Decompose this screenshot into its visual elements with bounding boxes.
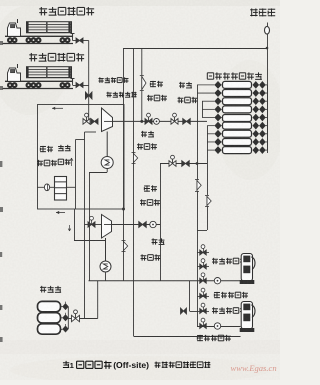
label: hydrogen tank (氢气罐)	[40, 286, 46, 293]
wire: riser x=133.5 from top header down to dispenser2 branch	[133, 48, 135, 336]
wire: riser x=123.5 from top header down to lower header	[123, 48, 125, 281]
instrument circle to calibration room	[267, 23, 269, 27]
shutoff valve (solid) on suction drop	[85, 92, 92, 99]
wire: cooler2 to lower header	[105, 272, 107, 281]
compressor 1 inlet valve with stem	[83, 119, 90, 125]
storage tank bank: 9 horizontal cylinders	[223, 81, 252, 153]
dispenser branch 2 with valve	[197, 266, 209, 268]
junction dot at box bottom and riser	[122, 208, 125, 211]
wire: dispenser2 feed y=326	[197, 326, 241, 328]
wire: dispenser2 feed x=133.5 elbow	[134, 336, 241, 338]
junction on discharge with riser x=141.5	[140, 120, 143, 123]
discharge2 gauge	[150, 221, 156, 227]
small down arrow	[68, 225, 71, 231]
wire: riser x=160 up to tank feed line	[160, 164, 162, 225]
discharge gauge	[154, 119, 160, 125]
gauge on dispenser1 feed	[214, 278, 220, 284]
label: temperature sensor (温度传感器) lower	[144, 185, 150, 191]
safety relief flag on riser x=133.5	[133, 152, 135, 164]
wire: riser x=160 down to lower header	[160, 225, 162, 281]
label: pressure sensor (压力传感器) near manifold	[179, 82, 185, 88]
label: pressure sensor dispenser2 (压力传感器)	[212, 307, 218, 313]
wire: truck1 outlet riser	[71, 34, 75, 38]
label: hydrogen compressor (氢气压缩机)	[107, 92, 112, 98]
tank feed valve with stem	[169, 161, 176, 167]
label: pressure sensor dispenser1 (压力传感器)	[212, 258, 218, 264]
label: pressure sensor (压力传感器) lower	[152, 238, 158, 244]
discharge2 solid valve	[139, 222, 147, 228]
wire: manifold A down leg with check flag	[196, 180, 198, 192]
wire: riser x=141.5 from top header to discharge line	[141, 48, 143, 75]
wire: water riser x=75.5	[75, 140, 77, 210]
compressor U1 (stage 1)	[102, 108, 113, 132]
discharge valve 2 with stem	[171, 119, 178, 125]
dispenser branch 3 with valve	[197, 296, 209, 298]
aftercooler E1 (circle with zigzag)	[101, 157, 113, 169]
wire: manifold C down leg with check flag	[207, 164, 209, 196]
solid valve left of branch 4	[181, 308, 187, 314]
tank left isolation valves	[215, 81, 223, 154]
wire: tank right manifold	[267, 85, 269, 150]
wire: compressor1 to aftercooler	[106, 132, 108, 157]
label: pressure sensor near trucks (压力传感器)	[99, 77, 104, 83]
aftercooler E2 (circle with zigzag)	[100, 261, 111, 272]
discharge solid valve	[183, 119, 191, 125]
wire: truck2 outlet riser	[71, 79, 75, 83]
label: temperature sensor dispenser2 (温度传感器)	[197, 335, 203, 341]
dispenser branch 1 with valve	[197, 252, 209, 254]
wire: vertical from instrument down to tank manifold	[267, 34, 269, 153]
tank right double valves	[253, 81, 267, 153]
hydrogen buffer tanks: 3 cylinders	[38, 301, 61, 311]
wire: tank left manifold B (rows 3-5)	[202, 101, 204, 117]
wire: vertical suction drop x=88.7	[88, 41, 90, 105]
wire: stub riser x=189.5	[189, 281, 191, 311]
water cooler / radiator block	[55, 177, 67, 201]
wire: compressor1 discharge line y=121.4	[113, 120, 208, 122]
buffer tank valves	[61, 302, 69, 333]
label: temperature sensor (温度传感器) in box	[40, 146, 46, 152]
label: calibration room (校验室)	[250, 8, 258, 16]
label: temperature sensor dispenser1 (温度传感器)	[214, 292, 220, 298]
wire: tank left manifold C (rows 6-9)	[207, 126, 209, 164]
valve on truck2 outlet	[76, 83, 83, 88]
flow arrow under box bottom	[56, 212, 65, 214]
wire: compressor2 discharge to riser x=160	[112, 224, 161, 226]
dispenser branch 4 with valve	[197, 311, 209, 313]
buffer outlet control valve	[72, 315, 80, 321]
valve on dispenser2 feed	[200, 324, 207, 329]
scan artifact smudges	[0, 41, 3, 342]
compressor U2 (stage 2)	[102, 215, 112, 239]
hydrogen dispenser 2	[241, 302, 252, 330]
truck 1: hydrogen tube trailer	[2, 19, 73, 44]
wire: y=240 horizontal	[74, 240, 106, 242]
wire: water down leg x=74 to y=240	[74, 209, 76, 240]
inline temperature instrument	[44, 184, 49, 191]
wire: join of down legs y=230	[197, 230, 207, 232]
wire: dispenser supply vertical x=197	[197, 230, 199, 326]
wire: truck1 line to suction header	[83, 40, 89, 42]
compressor enclosure box	[38, 105, 125, 210]
wire: drop x=97.7 from lower header to hydrogen buffer line	[97, 281, 99, 319]
discharge valve with stem	[145, 119, 152, 125]
valve on truck1 outlet	[76, 38, 83, 43]
label: pressure sensor (压力传感器) mid	[141, 131, 147, 137]
wire: cooler1 outlet to water return	[106, 169, 108, 173]
gauge on dispenser2 feed	[214, 323, 220, 329]
wire: compressor2 to aftercooler 2	[105, 238, 107, 261]
wire: radiator to water riser	[67, 186, 76, 188]
compressor 2 inlet valve with flag	[88, 222, 95, 228]
wire: lower distribution header y=280.7	[89, 280, 241, 282]
check flag on riser x=123.5	[123, 241, 125, 252]
label: temperature sensor (温度传感器) near riser	[150, 81, 156, 87]
wire: truck2 line joining drop	[83, 85, 89, 87]
wire: buffer tank manifold	[67, 307, 69, 329]
wire: drop from suction header to compressor 1 inlet	[88, 105, 90, 122]
wire: interstage step pipe	[85, 131, 97, 133]
wire: buffer outlet line	[68, 318, 72, 320]
valve on dispenser1 feed	[200, 278, 207, 283]
hydrogen dispenser 1	[241, 254, 252, 282]
label: water cooling system (水冷系统)	[58, 145, 64, 151]
wire: top main header y=48	[124, 48, 268, 50]
truck 2: hydrogen tube trailer	[2, 64, 73, 89]
flow arrow on suction header	[52, 107, 63, 109]
label: in-station high pressure hydrogen storage tanks (站内高压储氢罐)	[207, 73, 213, 79]
label: hydrogen tube trailer 2 (氢气长管拖车)	[29, 53, 37, 61]
caption: 图1 离站制氢(Off-site)型加氢站工艺流程	[63, 361, 69, 368]
wire: tank feed line y=163.5	[160, 163, 207, 165]
wire: water line y=187	[37, 186, 55, 188]
tank feed solid valve	[182, 161, 190, 167]
label: hydrogen tube trailer 1 (氢气长管拖车)	[39, 7, 47, 15]
compressor 1 inlet solid valve	[91, 119, 98, 125]
wire: tank left manifold A (rows 1-2)	[197, 85, 199, 164]
safety relief flag on riser x=141.5	[141, 76, 143, 91]
